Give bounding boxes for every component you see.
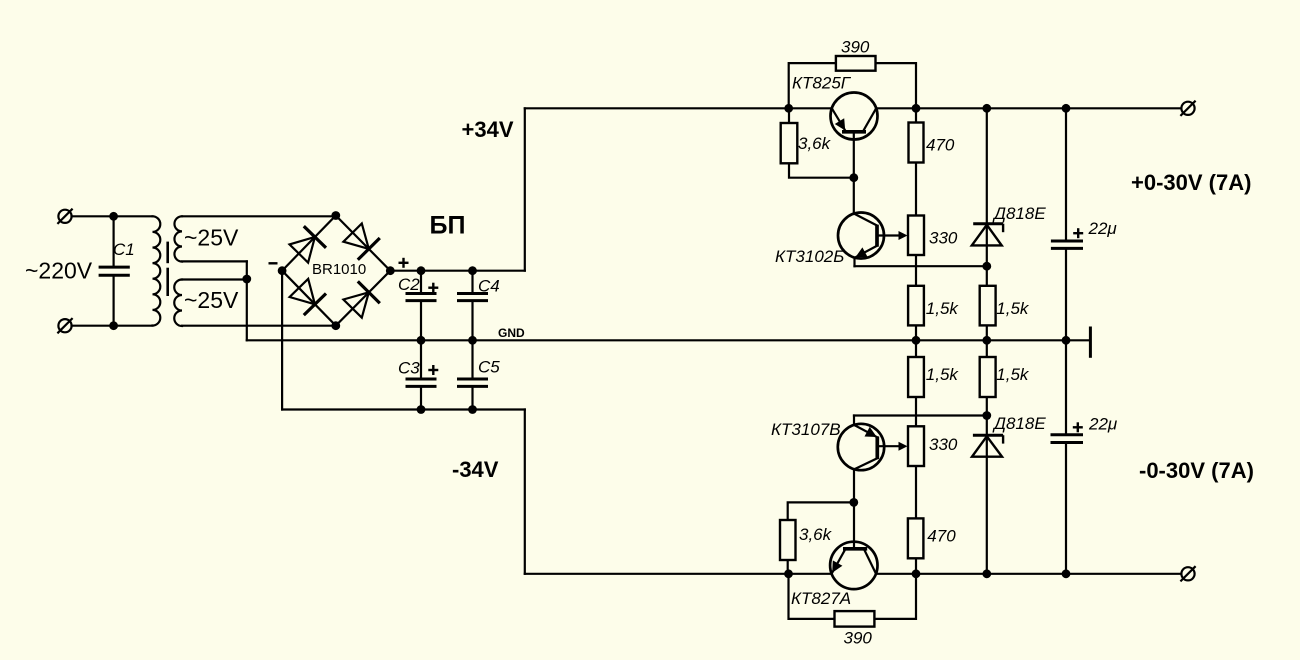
svg-text:1,5k: 1,5k	[926, 365, 960, 384]
svg-text:1,5k: 1,5k	[926, 299, 960, 318]
svg-text:-0-30V (7A): -0-30V (7A)	[1139, 458, 1254, 483]
svg-text:-34V: -34V	[452, 457, 499, 482]
svg-text:330: 330	[929, 435, 958, 454]
svg-text:3,6k: 3,6k	[799, 525, 833, 544]
svg-text:+0-30V (7A): +0-30V (7A)	[1131, 170, 1251, 195]
svg-text:330: 330	[929, 229, 958, 248]
svg-text:+34V: +34V	[462, 117, 514, 142]
svg-text:1,5k: 1,5k	[996, 299, 1030, 318]
svg-text:3,6k: 3,6k	[798, 134, 832, 153]
svg-text:GND: GND	[498, 326, 525, 340]
svg-text:~220V: ~220V	[25, 258, 93, 284]
svg-text:470: 470	[926, 136, 955, 155]
svg-text:C1: C1	[113, 240, 135, 259]
svg-text:C3: C3	[398, 359, 420, 378]
svg-text:C2: C2	[398, 275, 420, 294]
svg-text:1,5k: 1,5k	[996, 365, 1030, 384]
svg-text:КТ3102Б: КТ3102Б	[775, 247, 844, 266]
svg-text:~25V: ~25V	[184, 224, 239, 250]
svg-text:390: 390	[841, 37, 870, 56]
svg-text:390: 390	[844, 628, 873, 647]
svg-text:КТ827А: КТ827А	[791, 589, 851, 608]
svg-text:C4: C4	[478, 277, 500, 296]
svg-text:~25V: ~25V	[184, 287, 239, 313]
svg-text:C5: C5	[478, 358, 500, 377]
svg-text:БП: БП	[430, 212, 466, 240]
svg-text:Д818Е: Д818Е	[992, 204, 1046, 223]
svg-text:470: 470	[927, 527, 956, 546]
svg-text:КТ3107В: КТ3107В	[771, 420, 841, 439]
svg-text:КТ825Г: КТ825Г	[792, 73, 852, 92]
svg-text:Д818Е: Д818Е	[992, 414, 1046, 433]
svg-text:22μ: 22μ	[1088, 414, 1118, 433]
svg-text:22μ: 22μ	[1088, 219, 1118, 238]
svg-text:BR1010: BR1010	[312, 261, 366, 278]
